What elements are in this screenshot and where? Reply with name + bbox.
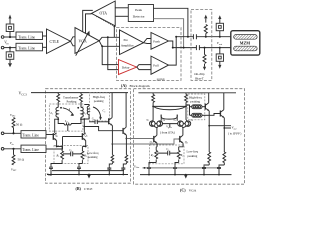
wire PD to OTA line 2 [115,15,128,17]
resistor RE1 [56,147,64,164]
svg-text:Bias-T: Bias-T [195,76,204,80]
svg-text:peaking: peaking [188,154,198,158]
resistor REF2 [125,139,128,165]
wire node J2 to pad P2 [9,48,11,52]
svg-text:Q6: Q6 [190,119,193,123]
node bias tap 2 [204,47,206,49]
ground below pad P2 [8,59,12,67]
wire Delay to Pull line 2 [137,67,151,70]
label (B) CTLE [76,186,93,191]
wire L2 bottom to collector Q2 [81,117,84,133]
current source M1 [49,164,62,175]
label on-chip bias-T [194,72,205,80]
wire input line B1 [4,132,21,134]
node J1 [9,36,11,38]
dashed box low-freq peaking B [54,146,88,164]
wire emitter Q2 down [85,141,87,147]
svg-text:Q3: Q3 [146,119,149,123]
wire input line 1 [4,36,16,38]
current source M2 [77,164,82,175]
node output pad tap 1 [219,36,221,38]
resistor 50ohm bottom termination [12,149,15,165]
wire PreAmp to Push line 1 [144,39,152,43]
current source M6 [173,163,179,175]
resistor RL3 load [152,93,155,105]
node load left [152,106,154,108]
supply arrow above pad P3 [218,15,221,23]
svg-text:VGA: VGA [189,188,197,192]
wire EF-B emitter column [125,135,127,138]
dashed box circuit B [46,89,131,184]
svg-text:Trans. Line: Trans. Line [18,47,35,51]
wire OTA output 1 to VGA control [83,10,93,31]
svg-text:50 Ω: 50 Ω [16,123,23,127]
capacitor C1 (series, OUTP) [193,34,196,39]
transistor Q2 [63,133,88,141]
current source M4 [121,164,126,175]
wire Vbias gate line C [143,167,221,169]
transistor Q5 (quad) [178,121,184,127]
label Low-freq peaking C [187,150,199,158]
wire CTLE to VGA line 1 [71,37,76,41]
delay cell (red) [119,60,137,75]
transistor Q3 (quad) [150,121,156,127]
svg-text:CTLE: CTLE [84,187,92,191]
wire control drop to delay tap [113,27,115,38]
wire output B line 2 (gray) [112,139,178,144]
wire to pad P4 [219,48,221,54]
node rail B right col [122,174,124,176]
node center tap right [80,118,82,120]
wire emitter node left [57,146,63,148]
input port arrow (top stub) [9,15,12,25]
label (A) Block diagram [121,83,150,88]
transistor Q1 C (input pair) [150,132,158,145]
wire Q2 base C [178,138,180,140]
wire base Q2 riser [46,137,63,150]
amplifier OTA [92,1,116,26]
inductor Lhf [84,105,89,120]
SECTION C: VGA schematic [134,89,245,193]
resistor RL2 load [80,93,83,108]
wire L3 center tap down [67,126,69,132]
svg-text:SFPP: SFPP [157,77,165,81]
varactor tuning arrow [93,107,102,121]
svg-text:On-chip: On-chip [194,72,205,76]
transistor Q6 (quad) [185,121,191,127]
wire emitter Q2 C down [179,143,183,147]
node rail C [185,174,187,176]
node rail C col2 [218,174,220,176]
svg-text:Amplifier: Amplifier [121,43,135,47]
node Q2 collector tap [83,118,85,120]
svg-text:Pre: Pre [124,38,129,42]
wire emitter Q1 down [56,141,58,147]
amplifier Pull [151,56,169,74]
node J2 [9,47,11,49]
resistor REF1 [111,144,114,164]
svg-text:Peak: Peak [135,8,142,12]
label Low-freq peaking B [87,151,99,159]
wire EF3 emitter column [208,111,210,152]
node control drop [113,26,115,28]
svg-text:(C): (C) [180,188,186,193]
inductor L3 center [58,119,81,125]
varactor V1 (hf peaking) [190,105,205,109]
svg-text:Peaking: Peaking [67,100,77,104]
pad P2 (input pad bottom) [6,52,14,60]
svg-text:Trans. Line: Trans. Line [22,148,39,152]
resistor RO2 [223,152,226,165]
wire PD sense line 1 [154,8,188,36]
node Vbias C [144,167,146,169]
svg-text:(B): (B) [76,186,82,191]
svg-text:50 Ω: 50 Ω [18,158,25,162]
wire Q2 collector to EF-B base [84,127,123,131]
node Q2 collector tap2 [83,126,85,128]
pad P1 (input pad top) [6,24,14,32]
peak detector PD [128,5,153,22]
wire quad emitters join left [154,126,159,131]
inductor L2 (coupled) [81,107,83,117]
ground arrow below Rb2 [203,64,206,70]
transmission line TL2 [16,43,43,51]
SECTION B: CTLE schematic [1,89,178,191]
pad P3 (output pad top) [216,23,223,30]
wire EF4 emitter column [223,118,225,152]
node rail C col1 [203,174,205,176]
transistor Q2 C (input pair) [180,132,188,145]
wire input line 2 [4,47,16,49]
wire out1 C [209,125,231,127]
wire PD to OTA line 1 [115,7,128,9]
dashed box on-chip bias-T [191,10,212,81]
wire quad bases to Vgain [155,124,185,127]
ground rail B [47,174,128,176]
resistor Rb2 (bias-T down) [203,48,206,64]
wire emitter node right [82,146,85,148]
wire PD sense line 2 [154,19,184,48]
node B emitter 1 [56,146,58,148]
node rail C tail1 [148,174,150,176]
svg-text:Q5: Q5 [173,119,176,123]
current source M5 [147,163,156,175]
wire quad collector left inner [160,115,162,121]
emitter follower EF3 [205,93,210,111]
transistor Q1 [46,133,58,141]
wire emitter Q1 C down [155,143,158,147]
dashed box low-freq peaking C [150,145,185,164]
wire OTA output 2 to VGA control [86,14,92,33]
svg-text:CTLE: CTLE [50,40,60,44]
wire Q1 base C [153,138,154,140]
node sense 2 [183,47,185,49]
wire to pad P3 [219,31,221,37]
SECTION A: block diagram [1,1,260,88]
wire delay tap 1 (crossed) [108,37,119,69]
wire input line B2 [4,148,21,150]
resistor RL1 load [57,93,60,108]
node B-J2 [12,148,14,150]
node delay tap 2 [101,45,103,47]
node rail B [88,174,90,176]
resistor RO1 [208,152,211,165]
amplifier Push [151,33,169,50]
transmission line TL1 [16,32,43,40]
svg-text:Push: Push [153,39,160,43]
input terminal circle inp [1,36,4,39]
wire Delay to Pull line 1 [137,65,151,68]
current source M8 [217,165,224,175]
wire pad P1 to input line [9,32,11,38]
resistor RE2 [81,147,87,164]
svg-text:Trans. Line: Trans. Line [18,35,35,39]
resistor RE3 [150,147,158,163]
transistor Q4 (quad) [157,121,163,127]
wire VGA to PreAmp line 2 [99,41,119,47]
supply rail VCC C [138,92,236,94]
supply arrow above Rb1 [204,15,207,23]
varactor V2 (hf peaking) [190,113,211,117]
wire Vbias gate line B [52,170,124,172]
svg-text:OTA: OTA [100,12,108,16]
current source M3 [107,164,112,175]
coupling arrow k [63,107,74,116]
wire delay tap 2 (crossed) [102,46,118,64]
dashed box high-freq peaking C [188,94,205,120]
wire Push output riser [169,41,173,48]
wire VGA to PreAmp line 1 [99,37,119,41]
coupling dot L1 [60,107,62,109]
label High-freq peaking B [93,95,106,103]
label Transformer Peaking [63,96,78,104]
transmission line TL4 [21,145,46,152]
node B tail 1 [50,174,52,176]
svg-text:Trans. Line: Trans. Line [22,134,39,138]
dotted control line OTA to delay tap [96,16,114,26]
svg-text:( from OTA): ( from OTA) [160,130,175,134]
node B tail 2 [78,174,80,176]
svg-text:peaking: peaking [190,100,200,104]
svg-text:(A): (A) [121,83,127,88]
svg-text:Q4: Q4 [162,119,165,123]
ground symbol C [184,175,188,179]
coupling dot L2 [77,107,79,109]
svg-text:Block diagram: Block diagram [130,84,150,88]
wire output rail OUTP [176,36,234,38]
resistor Rb1 (bias-T up) [204,25,207,37]
amplifier VGA [75,28,99,54]
svg-text:Delay: Delay [122,65,130,69]
node push-out [172,47,174,49]
supply rail VCC3 [31,92,128,94]
node pull-out [175,36,177,38]
pad P4 (output pad bottom) [216,54,223,61]
ground arrow below pad P4 [218,61,221,68]
node EF-B out [126,138,128,140]
dashed box high-freq peaking B [90,93,110,121]
svg-text:( to SFPP ): ( to SFPP ) [228,132,241,136]
wire CTLE to VGA line 2 [71,41,76,46]
gain control arrow through VGA [76,31,90,56]
capacitor C2 (series, OUTN) [196,45,199,50]
svg-text:peaking: peaking [94,99,104,103]
wire quad collector right inner [176,115,178,121]
current source M7 [202,165,209,175]
inductor L1 (coupled) [56,107,58,117]
dashed box transformer peaking [49,104,83,131]
resistor RE4 [177,147,183,163]
wire load node line [153,105,186,106]
svg-text:VDC: VDC [10,113,16,118]
svg-text:Pull: Pull [153,63,158,67]
transmission line TL3 [21,131,46,138]
node output pad tap 2 [219,47,221,49]
wire out2 C [224,127,231,129]
svg-text:Detector: Detector [133,15,146,19]
resistor RL4 load [185,93,188,105]
svg-text:MZM: MZM [240,41,250,46]
input terminal circle B1 [1,132,4,135]
MZM electrode 1 [234,35,257,40]
node load right [185,106,187,108]
label High-freq peaking C [189,96,202,104]
wire PreAmp to Push line 2 [144,42,152,45]
capacitor CE [63,149,81,157]
MZM outline [231,31,260,55]
node bias tap 1 [205,36,207,38]
node B-J1 [12,132,14,134]
wire output rail OUTN [173,47,234,49]
capacitor Cb [89,117,106,124]
node delay tap 1 [107,36,109,38]
ground symbol B [87,175,91,179]
amplifier CTLE [47,29,71,54]
resistor 50ohm top termination [12,118,15,134]
input terminal circle B2 [1,148,4,151]
node center tap left [57,118,59,120]
amplifier PreAmp [120,30,144,55]
emitter follower EF4 [210,93,224,118]
wire TL2 to CTLE [43,46,47,48]
wire TL1 to CTLE [43,35,47,37]
emitter follower EF-B [123,93,126,136]
wire L1 bottom to collector Q1 [55,117,59,133]
svg-text:peaking: peaking [88,155,98,159]
label (C) VGA [180,188,197,193]
wire load node to peaking [186,105,190,115]
wire Pull output riser [169,37,177,65]
transformer primary arc [153,106,186,109]
emitter follower EF-A [106,93,112,126]
wire output B line 1 (gray) [126,138,152,140]
node out1 C [208,125,210,127]
input terminal circle inn [1,46,4,49]
node sense 1 [187,36,189,38]
dashed box SFPP stage [117,28,182,81]
wire quad collector left outer [152,106,154,120]
wire quad emitters join right [182,126,187,131]
ground rail C [140,174,232,176]
wire quad collector right outer [185,106,188,120]
capacitor CE2 [157,148,178,155]
node B emitter 2 [85,146,87,148]
node EF-A out [112,143,114,145]
MZM electrode 2 [234,46,257,51]
dashed box circuit C [134,89,245,185]
wire EF-A emitter column [111,126,113,145]
node out2 C [223,127,225,129]
node rail B left col [108,174,110,176]
transformer secondary hairpin [161,115,177,120]
node rail C tail2 [174,174,176,176]
